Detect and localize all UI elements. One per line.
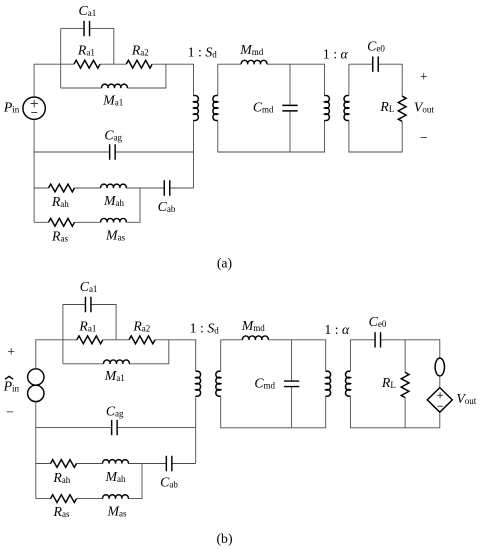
svg-text:Ma1: Ma1 [102, 92, 123, 107]
inductor Ma1 (b) [104, 360, 130, 364]
resistor Ras (b) [51, 495, 77, 503]
inductor Ma1 (a) [102, 84, 128, 88]
svg-text:Cag: Cag [104, 128, 122, 143]
svg-text:RL: RL [381, 375, 396, 390]
wire [100, 63, 126, 65]
resistor Ra1 (a) [74, 60, 100, 68]
transformer 1:Sd secondary (a) [213, 95, 218, 120]
dependent source Vout (b) [427, 388, 452, 413]
svg-text:1 : Sd: 1 : Sd [190, 320, 220, 335]
wire [62, 305, 64, 364]
wire [193, 120, 195, 188]
inductor Mmd (b) [243, 336, 269, 340]
svg-text:Ras: Ras [53, 504, 70, 519]
capacitor Cab (a) [164, 180, 170, 195]
wire [291, 340, 293, 428]
wire [289, 64, 291, 152]
inductor Mas (a) [101, 218, 127, 222]
wire [63, 340, 169, 364]
wire [36, 464, 142, 499]
svg-text:Mah: Mah [103, 193, 124, 208]
svg-text:Ra1: Ra1 [78, 319, 96, 334]
wire [36, 340, 77, 369]
svg-text:Mas: Mas [107, 503, 127, 518]
resistor RL (b) [401, 372, 409, 397]
svg-text:Ras: Ras [51, 228, 68, 243]
resistor Ra1 (b) [77, 336, 103, 344]
resistor Rah (a) [49, 184, 75, 192]
svg-text:(b): (b) [216, 531, 232, 547]
transformer 1:Sd primary (b) [196, 371, 201, 396]
capacitor Ca1 (b) [85, 297, 91, 312]
transformer 1:alpha primary (a) [325, 95, 330, 120]
svg-text:Cab: Cab [158, 199, 176, 214]
wire [61, 29, 114, 65]
wire [60, 29, 62, 88]
svg-text:Cmd: Cmd [254, 375, 275, 390]
svg-text:1 : Sd: 1 : Sd [188, 45, 218, 60]
svg-text:Rah: Rah [52, 470, 70, 485]
svg-text:Mmd: Mmd [239, 42, 264, 57]
capacitor Ce0 (b) [375, 332, 381, 347]
inductor Mah (a) [101, 184, 127, 188]
inductor Mah (b) [103, 460, 129, 464]
svg-text:Ma1: Ma1 [104, 368, 125, 383]
wire [153, 64, 194, 96]
transformer 1:Sd primary (a) [194, 95, 199, 120]
svg-text:Ra2: Ra2 [132, 319, 150, 334]
svg-text:Cag: Cag [106, 403, 124, 418]
svg-text:RL: RL [379, 99, 394, 114]
wire [63, 305, 116, 340]
inductor Mmd (a) [241, 60, 267, 64]
svg-text:1 : α: 1 : α [324, 322, 350, 337]
svg-text:Rah: Rah [51, 194, 69, 209]
svg-text:Ra1: Ra1 [77, 43, 95, 58]
wire [218, 64, 325, 152]
transformer 1:Sd secondary (b) [216, 371, 221, 396]
svg-text:Ra2: Ra2 [131, 43, 149, 58]
wire [155, 340, 196, 372]
capacitor Cag (b) [112, 420, 118, 435]
wire [35, 402, 37, 499]
svg-text:−: − [6, 405, 14, 420]
capacitor Cmd (a) [282, 105, 297, 111]
transformer 1:alpha secondary (a) [344, 95, 349, 120]
capacitor Cag (a) [110, 144, 116, 159]
svg-text:Mah: Mah [105, 469, 126, 484]
svg-text:Cab: Cab [160, 475, 178, 490]
wire [34, 187, 193, 189]
svg-text:Mmd: Mmd [241, 318, 266, 333]
wire [34, 188, 140, 222]
svg-text:Pin: Pin [3, 379, 20, 394]
power source Pin-hat (b) [28, 369, 44, 402]
svg-text:Mas: Mas [105, 228, 125, 243]
transformer 1:alpha secondary (b) [345, 371, 350, 396]
capacitor Ca1 (a) [84, 21, 90, 36]
wire [36, 427, 196, 429]
svg-text:+: + [7, 344, 15, 359]
svg-text:+: + [420, 69, 428, 84]
resistor RL (a) [398, 96, 406, 121]
svg-text:Pin: Pin [3, 99, 20, 114]
svg-text:(a): (a) [217, 255, 232, 271]
voltage source Pin (a) [23, 97, 45, 119]
wire [103, 339, 129, 341]
capacitor Ce0 (a) [373, 57, 379, 72]
capacitor Cab (b) [166, 456, 172, 471]
svg-text:−: − [420, 130, 428, 145]
transformer 1:alpha primary (b) [326, 371, 331, 396]
wire [33, 119, 35, 222]
svg-text:Ca1: Ca1 [80, 279, 98, 294]
svg-text:1 : α: 1 : α [323, 46, 349, 61]
inductor Mas (b) [103, 495, 129, 499]
resistor Rah (b) [51, 460, 77, 468]
wire [349, 64, 402, 152]
resistor Ras (a) [49, 218, 75, 226]
wire [221, 340, 326, 428]
meter ellipse (b) [435, 358, 444, 376]
wire [195, 396, 197, 464]
wire [34, 151, 193, 153]
svg-text:Ce0: Ce0 [369, 314, 387, 329]
wire [404, 340, 406, 428]
capacitor Cmd (b) [284, 381, 299, 387]
svg-text:Ca1: Ca1 [79, 3, 97, 18]
svg-text:Vout: Vout [456, 391, 476, 406]
wire [350, 340, 439, 428]
wire [61, 64, 166, 88]
svg-text:Vout: Vout [414, 99, 434, 114]
wire [36, 463, 196, 465]
svg-text:Cmd: Cmd [253, 100, 274, 115]
wire [34, 64, 74, 97]
svg-text:Ce0: Ce0 [367, 38, 385, 53]
resistor Ra2 (b) [129, 336, 155, 344]
resistor Ra2 (a) [126, 60, 152, 68]
